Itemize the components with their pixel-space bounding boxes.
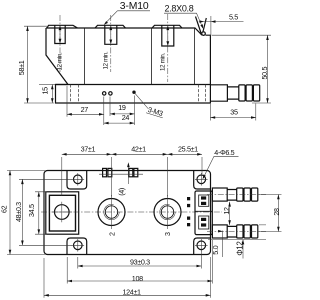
dim 24 bbox=[104, 113, 135, 124]
dim row 37 42 25.5 bbox=[62, 144, 202, 196]
svg-text:24: 24 bbox=[122, 113, 130, 122]
dim 108 bbox=[67, 240, 212, 284]
svg-text:4-Φ6.5: 4-Φ6.5 bbox=[214, 148, 234, 157]
terminal boss 1 bbox=[47, 25, 78, 28]
svg-text:34.5: 34.5 bbox=[27, 204, 36, 217]
left ceramic pad outer bbox=[46, 192, 79, 234]
terminal 2 (circle) bbox=[98, 195, 125, 236]
pad center hole bbox=[52, 202, 73, 223]
svg-text:19: 19 bbox=[118, 103, 126, 112]
hose barb (side view) bbox=[210, 85, 259, 101]
label 2.8X0.8 bbox=[164, 4, 203, 29]
svg-text:35: 35 bbox=[230, 108, 238, 117]
body section parting lines bbox=[85, 28, 195, 85]
dim 48±0.3 bbox=[14, 179, 72, 245]
label 4-Φ6.5 bbox=[203, 148, 239, 179]
svg-text:12 min.: 12 min. bbox=[160, 53, 167, 71]
12 min depth dim hole3 bbox=[160, 25, 170, 71]
gate blade marks bbox=[187, 197, 190, 226]
dim 124±1 bbox=[44, 257, 211, 298]
centerline hole 1 bbox=[59, 15, 61, 72]
terminal 3 (circle) bbox=[154, 195, 181, 236]
svg-text:108: 108 bbox=[132, 274, 143, 283]
centerline hole 3 bbox=[167, 14, 169, 82]
faston housing block bbox=[195, 191, 212, 235]
corner pocket top-left bbox=[67, 171, 87, 190]
faston blade rolled base bbox=[202, 32, 206, 36]
dim 5.0 bbox=[211, 230, 223, 257]
svg-text:12 min.: 12 min. bbox=[103, 51, 110, 69]
dim 34.5 bbox=[27, 192, 47, 234]
svg-text:Φ12: Φ12 bbox=[235, 241, 244, 256]
terminal boss 2 bbox=[95, 25, 126, 28]
dim 93±0.3 bbox=[78, 250, 202, 269]
terminal boss 3 bbox=[152, 25, 182, 28]
mounting hole bottom-right bbox=[195, 239, 208, 252]
gate pin 1 bbox=[103, 92, 106, 95]
dim 62 bbox=[0, 171, 45, 255]
svg-text:15: 15 bbox=[41, 87, 50, 95]
label 3-M10 bbox=[104, 1, 150, 25]
svg-text:2.8X0.8: 2.8X0.8 bbox=[165, 4, 194, 14]
M10 hole 3 bbox=[162, 25, 174, 46]
gate stub pair 1 bbox=[103, 168, 112, 176]
svg-text:25.5±1: 25.5±1 bbox=[178, 144, 198, 153]
svg-text:2: 2 bbox=[108, 232, 117, 236]
dim Φ12 bbox=[208, 225, 266, 259]
hidden mounting hole (top view left) bbox=[71, 85, 79, 104]
faston blade 2.8x0.8 top right bbox=[196, 17, 207, 34]
12 min depth dim hole1 bbox=[56, 25, 63, 70]
svg-text:12: 12 bbox=[222, 207, 231, 215]
gate pin 2 bbox=[109, 92, 112, 95]
corner pocket bottom-left bbox=[67, 238, 87, 255]
svg-text:50.5: 50.5 bbox=[260, 67, 269, 80]
12 min depth dim hole2 bbox=[103, 25, 113, 69]
main axis centerline bbox=[41, 211, 222, 213]
hose barb 1 (plan) bbox=[207, 188, 266, 201]
M10 hole 1 bbox=[55, 25, 65, 43]
dim 28 bbox=[259, 195, 282, 232]
hose barb 2 (plan) bbox=[207, 225, 266, 238]
mounting hole top-left bbox=[72, 173, 85, 186]
svg-text:27: 27 bbox=[81, 105, 89, 114]
svg-text:124±1: 124±1 bbox=[123, 288, 142, 297]
dim 12 bbox=[222, 202, 231, 225]
M3 gate node dot bbox=[132, 91, 135, 94]
mounting hole bottom-left bbox=[72, 239, 85, 252]
svg-text:62: 62 bbox=[0, 205, 9, 213]
svg-text:48±0.3: 48±0.3 bbox=[14, 202, 23, 222]
svg-text:3: 3 bbox=[163, 232, 172, 236]
svg-text:5.5: 5.5 bbox=[229, 13, 238, 22]
dim 58±1 bbox=[17, 26, 54, 103]
left ceramic pad inner bbox=[49, 195, 75, 231]
module body outline bbox=[46, 28, 210, 103]
gate stub pair 2 bbox=[99, 168, 143, 176]
svg-text:28: 28 bbox=[272, 208, 281, 216]
svg-text:58±1: 58±1 bbox=[17, 60, 26, 75]
svg-text:37±1: 37±1 bbox=[81, 144, 96, 153]
svg-text:(4): (4) bbox=[117, 188, 126, 196]
centerline hole 2 bbox=[110, 15, 112, 72]
body outline bbox=[44, 171, 211, 255]
M10 hole 2 bbox=[105, 25, 117, 44]
svg-text:12 min.: 12 min. bbox=[56, 52, 63, 70]
svg-text:42±1: 42±1 bbox=[131, 144, 146, 153]
dim 50.5 bbox=[212, 35, 271, 103]
corner pocket top-right bbox=[194, 171, 211, 190]
corner pocket bottom-right bbox=[194, 238, 211, 255]
dim 19 bbox=[110, 96, 135, 126]
label (4) bbox=[117, 162, 130, 196]
dim 5.5 bbox=[199, 13, 244, 36]
label 3-M3 bbox=[135, 93, 165, 118]
mounting hole top-right bbox=[195, 173, 208, 186]
flange step line bbox=[56, 84, 211, 86]
dim 27 bbox=[67, 86, 104, 125]
svg-text:93±0.3: 93±0.3 bbox=[130, 257, 150, 266]
dim 35 bbox=[210, 104, 255, 121]
dim 15 bbox=[39, 85, 55, 104]
hidden water bore (top view) bbox=[199, 85, 206, 104]
